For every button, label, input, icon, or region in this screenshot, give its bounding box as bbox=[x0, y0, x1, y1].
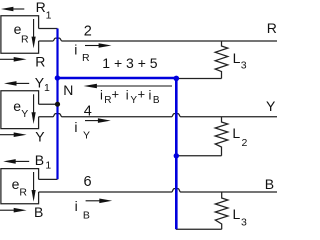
blue junction dot left bbox=[55, 75, 60, 80]
label eR (top winding) bbox=[14, 21, 29, 45]
label R1 bbox=[36, 0, 52, 21]
svg-text:1: 1 bbox=[45, 159, 51, 171]
svg-text:+: + bbox=[112, 87, 120, 102]
svg-text:R: R bbox=[36, 0, 46, 15]
svg-text:B: B bbox=[153, 95, 160, 106]
svg-text:i: i bbox=[74, 119, 77, 135]
svg-text:i: i bbox=[75, 198, 78, 214]
neutral lead wire from R winding bbox=[39, 28, 58, 30]
svg-text:R: R bbox=[104, 95, 111, 106]
label iY bbox=[74, 119, 90, 141]
svg-text:L: L bbox=[232, 125, 240, 141]
svg-text:B: B bbox=[83, 209, 90, 221]
label L3 (R phase) bbox=[233, 50, 247, 72]
terminal arrow R (right-pointing, under R box) bbox=[0, 57, 27, 62]
neutral lead wire from B winding bbox=[39, 178, 58, 180]
current arrow iR bbox=[85, 43, 112, 48]
svg-text:1 + 3 + 5: 1 + 3 + 5 bbox=[102, 55, 157, 71]
winding arrow R1 (left-pointing) bbox=[1, 7, 24, 12]
winding R1 box (source eR) bbox=[1, 16, 39, 54]
svg-text:i: i bbox=[126, 88, 129, 103]
svg-text:e: e bbox=[12, 176, 20, 192]
wire from L2 (Y) to neutral bus bbox=[176, 155, 222, 157]
svg-text:4: 4 bbox=[84, 104, 92, 120]
label iR bbox=[74, 41, 90, 64]
svg-text:B: B bbox=[35, 152, 44, 168]
emf arrow inside B winding bbox=[32, 172, 36, 202]
winding Y1 box (source eY) bbox=[1, 91, 39, 129]
svg-text:R: R bbox=[21, 34, 29, 46]
terminal arrow B (right-pointing, under B box) bbox=[0, 208, 27, 213]
svg-text:R: R bbox=[82, 52, 90, 64]
winding arrow Y1 (left-pointing) bbox=[4, 81, 29, 86]
wire from L3 (R) to neutral bus bbox=[176, 78, 222, 80]
svg-text:N: N bbox=[63, 82, 73, 98]
svg-text:B: B bbox=[34, 204, 43, 220]
svg-text:Y: Y bbox=[266, 98, 276, 114]
neutral current arrow (left-pointing) bbox=[84, 84, 173, 88]
wire 6 (B phase line) with hop over bus bbox=[39, 189, 277, 192]
label Y1 bbox=[35, 74, 50, 94]
svg-text:Y: Y bbox=[130, 95, 137, 106]
svg-text:e: e bbox=[13, 98, 21, 114]
svg-text:3: 3 bbox=[241, 60, 247, 72]
label eY (middle winding) bbox=[13, 98, 28, 120]
emf arrow inside R winding bbox=[32, 19, 36, 48]
svg-text:+: + bbox=[138, 87, 146, 102]
svg-text:L: L bbox=[233, 50, 241, 66]
svg-text:1: 1 bbox=[44, 82, 50, 94]
label L3 (B phase) bbox=[233, 206, 248, 229]
wire 2 (R phase line) with hop bbox=[39, 38, 277, 41]
svg-text:i: i bbox=[100, 88, 103, 103]
label L2 (Y phase) bbox=[232, 125, 247, 149]
svg-text:B: B bbox=[265, 176, 274, 192]
svg-text:R: R bbox=[19, 187, 27, 199]
svg-text:Y: Y bbox=[83, 129, 90, 141]
blue junction dot top of bus bbox=[174, 76, 180, 82]
neutral lead wire from Y winding to node N bbox=[39, 103, 58, 105]
svg-text:2: 2 bbox=[242, 137, 248, 149]
wire from L3 (B) to neutral bus bbox=[176, 228, 222, 230]
svg-text:2: 2 bbox=[84, 24, 92, 40]
blue junction dot at L2 wire bbox=[174, 153, 179, 158]
terminal arrow Y (right-pointing, under Y box) bbox=[0, 132, 27, 137]
svg-text:Y: Y bbox=[21, 108, 28, 120]
label iB bbox=[75, 198, 90, 222]
current arrow iB bbox=[86, 199, 113, 204]
node N junction dot bbox=[55, 102, 60, 107]
svg-text:6: 6 bbox=[84, 174, 92, 190]
inductor L3 (R phase) bbox=[215, 41, 228, 79]
svg-text:Y: Y bbox=[35, 129, 45, 145]
wire 4 (Y phase line) with two hops bbox=[39, 114, 277, 117]
label B1 bbox=[35, 152, 52, 171]
svg-text:R: R bbox=[267, 20, 277, 36]
svg-text:i: i bbox=[149, 88, 152, 103]
svg-text:L: L bbox=[233, 206, 241, 222]
label eR (bottom winding) bbox=[12, 176, 28, 198]
svg-text:R: R bbox=[35, 53, 45, 69]
svg-text:3: 3 bbox=[241, 217, 247, 229]
neutral bus horizontal 1+3+5 bbox=[58, 77, 177, 80]
winding B1 box (source labelled eR) bbox=[1, 169, 39, 204]
inductor L2 (Y phase) bbox=[215, 117, 228, 156]
inductor L3 (B phase) bbox=[215, 192, 228, 229]
svg-text:1: 1 bbox=[46, 10, 52, 22]
svg-text:i: i bbox=[74, 41, 77, 57]
left neutral lead vertical bbox=[56, 29, 58, 180]
neutral bus vertical bbox=[175, 78, 178, 229]
emf arrow inside Y winding bbox=[32, 94, 36, 124]
winding arrow B1 (left-pointing) bbox=[3, 159, 29, 164]
label iR + iY + iB (neutral) bbox=[100, 87, 160, 106]
current arrow iY bbox=[85, 118, 111, 123]
neutral line (blue) bbox=[55, 29, 179, 230]
